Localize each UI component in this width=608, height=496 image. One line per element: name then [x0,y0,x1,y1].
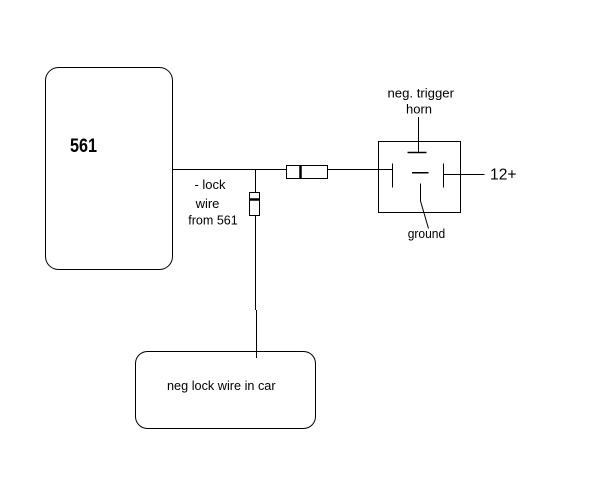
svg-text:neg lock wire in car: neg lock wire in car [167,378,276,393]
svg-text:- lock: - lock [194,177,226,192]
svg-text:12+: 12+ [490,167,517,184]
svg-text:ground: ground [408,226,446,241]
svg-text:neg. trigger: neg. trigger [388,85,455,100]
svg-text:561: 561 [70,136,97,157]
svg-text:horn: horn [406,101,432,116]
svg-text:wire: wire [195,196,220,211]
svg-text:from 561: from 561 [188,213,238,228]
